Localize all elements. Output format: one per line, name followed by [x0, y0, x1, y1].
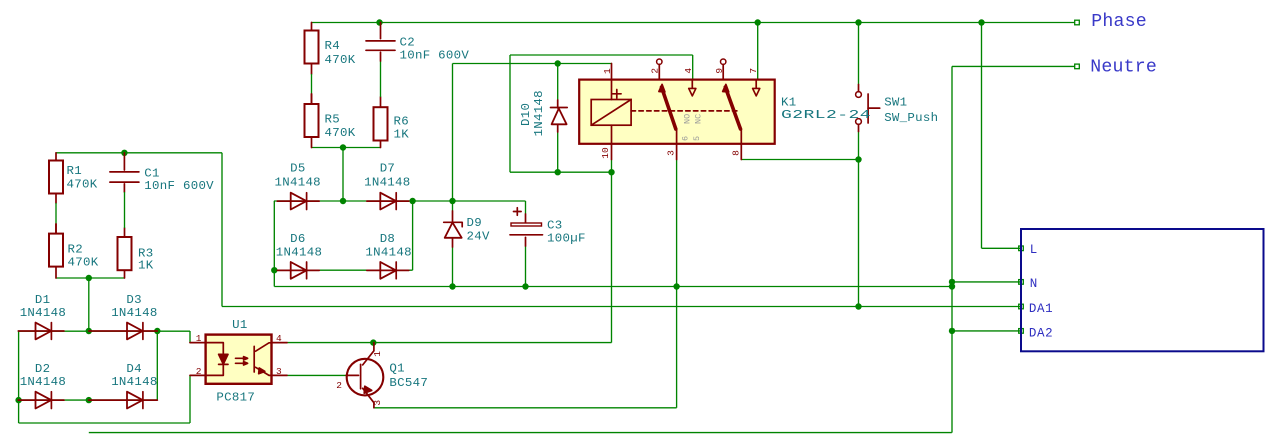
svg-text:SW_Push: SW_Push — [884, 111, 938, 125]
svg-text:1N4148: 1N4148 — [275, 175, 321, 189]
svg-text:D9: D9 — [467, 216, 482, 230]
svg-text:1N4148: 1N4148 — [111, 375, 157, 389]
svg-text:470K: 470K — [67, 177, 98, 191]
svg-text:NO: NO — [683, 114, 693, 124]
svg-text:DA2: DA2 — [1029, 327, 1053, 341]
svg-text:L: L — [1030, 243, 1038, 257]
svg-text:1N4148: 1N4148 — [364, 175, 410, 189]
svg-text:470K: 470K — [68, 256, 99, 270]
svg-text:470K: 470K — [325, 53, 356, 67]
svg-text:D1: D1 — [35, 293, 50, 307]
svg-text:Phase: Phase — [1091, 12, 1147, 32]
svg-text:DA1: DA1 — [1029, 302, 1053, 316]
svg-text:1N4148: 1N4148 — [365, 245, 411, 259]
svg-text:3: 3 — [372, 400, 383, 406]
svg-text:G2RL2-24: G2RL2-24 — [781, 108, 871, 122]
svg-text:D10: D10 — [519, 103, 533, 126]
svg-text:1N4148: 1N4148 — [532, 90, 546, 136]
svg-text:D2: D2 — [35, 362, 50, 376]
svg-text:1N4148: 1N4148 — [20, 375, 66, 389]
svg-text:D5: D5 — [290, 161, 305, 175]
svg-text:NC: NC — [694, 114, 704, 124]
svg-text:PC817: PC817 — [216, 391, 255, 405]
svg-text:R5: R5 — [325, 113, 340, 127]
svg-text:N: N — [1030, 277, 1038, 291]
svg-text:D8: D8 — [380, 232, 395, 246]
svg-text:C2: C2 — [400, 35, 415, 49]
svg-text:10nF 600V: 10nF 600V — [400, 48, 470, 62]
svg-text:Q1: Q1 — [389, 361, 404, 375]
svg-text:D7: D7 — [380, 161, 395, 175]
svg-text:1: 1 — [196, 333, 202, 344]
svg-text:10nF 600V: 10nF 600V — [144, 179, 214, 193]
svg-text:1N4148: 1N4148 — [20, 306, 66, 320]
svg-text:3: 3 — [666, 150, 677, 156]
svg-text:R4: R4 — [325, 39, 340, 53]
svg-text:2: 2 — [650, 68, 661, 74]
svg-text:470K: 470K — [325, 126, 356, 140]
svg-text:7: 7 — [748, 68, 759, 74]
svg-text:1K: 1K — [394, 128, 410, 142]
svg-text:1N4148: 1N4148 — [276, 245, 322, 259]
svg-text:1K: 1K — [138, 259, 154, 273]
svg-text:9: 9 — [714, 68, 725, 74]
svg-text:4: 4 — [683, 68, 694, 74]
svg-text:R2: R2 — [68, 243, 83, 257]
svg-text:100µF: 100µF — [547, 231, 586, 245]
svg-text:Neutre: Neutre — [1090, 58, 1157, 78]
svg-text:D3: D3 — [126, 293, 141, 307]
svg-text:24V: 24V — [467, 230, 490, 244]
svg-text:U1: U1 — [232, 318, 247, 332]
svg-text:4: 4 — [276, 333, 282, 344]
svg-text:1: 1 — [602, 68, 613, 74]
svg-text:R6: R6 — [394, 115, 409, 129]
svg-text:3: 3 — [276, 366, 282, 377]
svg-text:2: 2 — [336, 380, 342, 391]
svg-text:BC547: BC547 — [389, 376, 428, 390]
svg-text:D4: D4 — [126, 362, 141, 376]
svg-text:2: 2 — [196, 366, 202, 377]
svg-text:SW1: SW1 — [884, 95, 907, 109]
svg-text:1N4148: 1N4148 — [111, 306, 157, 320]
svg-text:5: 5 — [692, 136, 702, 141]
svg-text:D6: D6 — [290, 232, 305, 246]
svg-text:6: 6 — [681, 136, 691, 141]
svg-text:8: 8 — [731, 150, 742, 156]
svg-text:1: 1 — [372, 351, 383, 357]
svg-text:R1: R1 — [67, 164, 82, 178]
svg-text:10: 10 — [600, 147, 611, 159]
